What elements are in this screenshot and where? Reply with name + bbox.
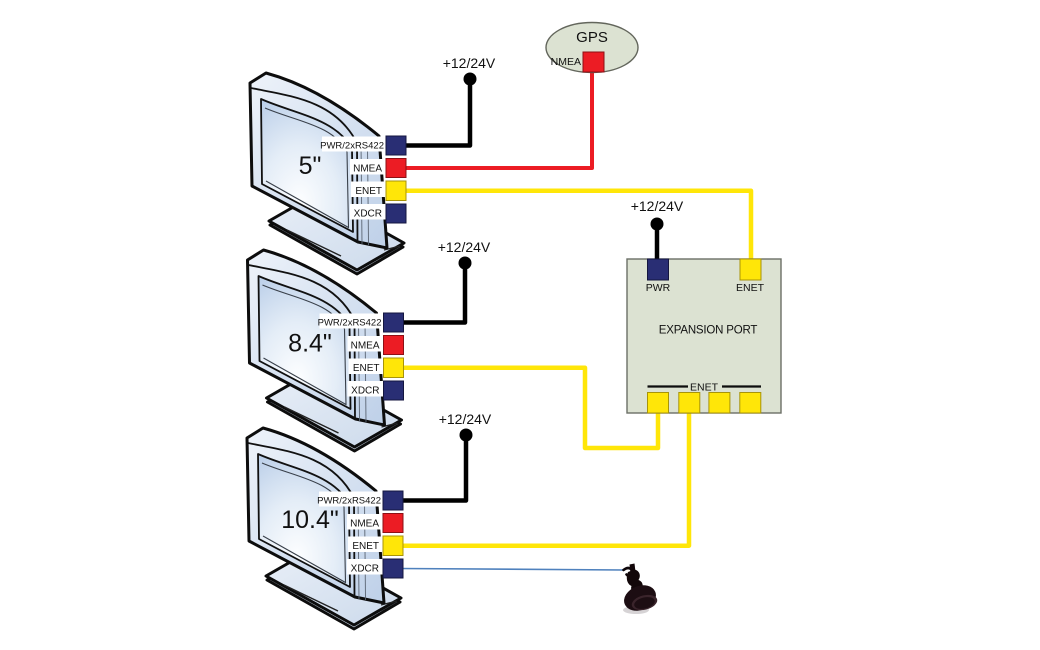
display M2 8.4 inch	[248, 250, 404, 451]
GPS unit	[546, 23, 638, 73]
connector ENET1 bottom expansion port	[648, 393, 669, 414]
svg-text:NMEA: NMEA	[551, 56, 581, 68]
expansion port box	[627, 259, 781, 413]
svg-text:10.4": 10.4"	[281, 506, 339, 534]
svg-text:+12/24V: +12/24V	[438, 239, 491, 255]
wire NMEA display1 to GPS red	[402, 60, 592, 168]
wire ENET display1 to expansion port yellow	[402, 191, 751, 264]
label ENET bottom expansion port	[648, 382, 762, 394]
connector PWR expansion port	[648, 259, 669, 280]
wire XDCR display3 to transducer blue	[399, 569, 624, 571]
connector ENET2 bottom expansion port	[679, 393, 700, 414]
wire ENET display2 to expansion port yellow	[400, 368, 658, 448]
wire power display3 black	[399, 429, 473, 501]
display M1 5 inch	[250, 73, 406, 274]
svg-text:8.4": 8.4"	[288, 330, 332, 358]
wire power expansion port black	[651, 218, 664, 263]
connector ENET4 bottom expansion port	[740, 393, 761, 414]
wire power display1 black	[402, 73, 477, 146]
svg-text:EXPANSION PORT: EXPANSION PORT	[659, 325, 758, 337]
svg-text:PWR: PWR	[646, 282, 671, 294]
connector NMEA GPS	[583, 52, 604, 72]
svg-text:5": 5"	[299, 152, 322, 180]
svg-text:+12/24V: +12/24V	[443, 55, 496, 71]
connector ENET top expansion port	[740, 259, 761, 280]
wire power display2 black	[400, 257, 472, 323]
svg-text:ENET: ENET	[736, 282, 765, 294]
wire ENET display3 to expansion port yellow	[399, 405, 689, 546]
connector ENET3 bottom expansion port	[709, 393, 730, 414]
svg-text:ENET: ENET	[690, 382, 719, 394]
svg-text:+12/24V: +12/24V	[631, 198, 684, 214]
svg-text:+12/24V: +12/24V	[439, 411, 492, 427]
display M3 10.4 inch	[247, 428, 403, 629]
transducer	[620, 564, 660, 616]
svg-text:GPS: GPS	[576, 29, 608, 46]
